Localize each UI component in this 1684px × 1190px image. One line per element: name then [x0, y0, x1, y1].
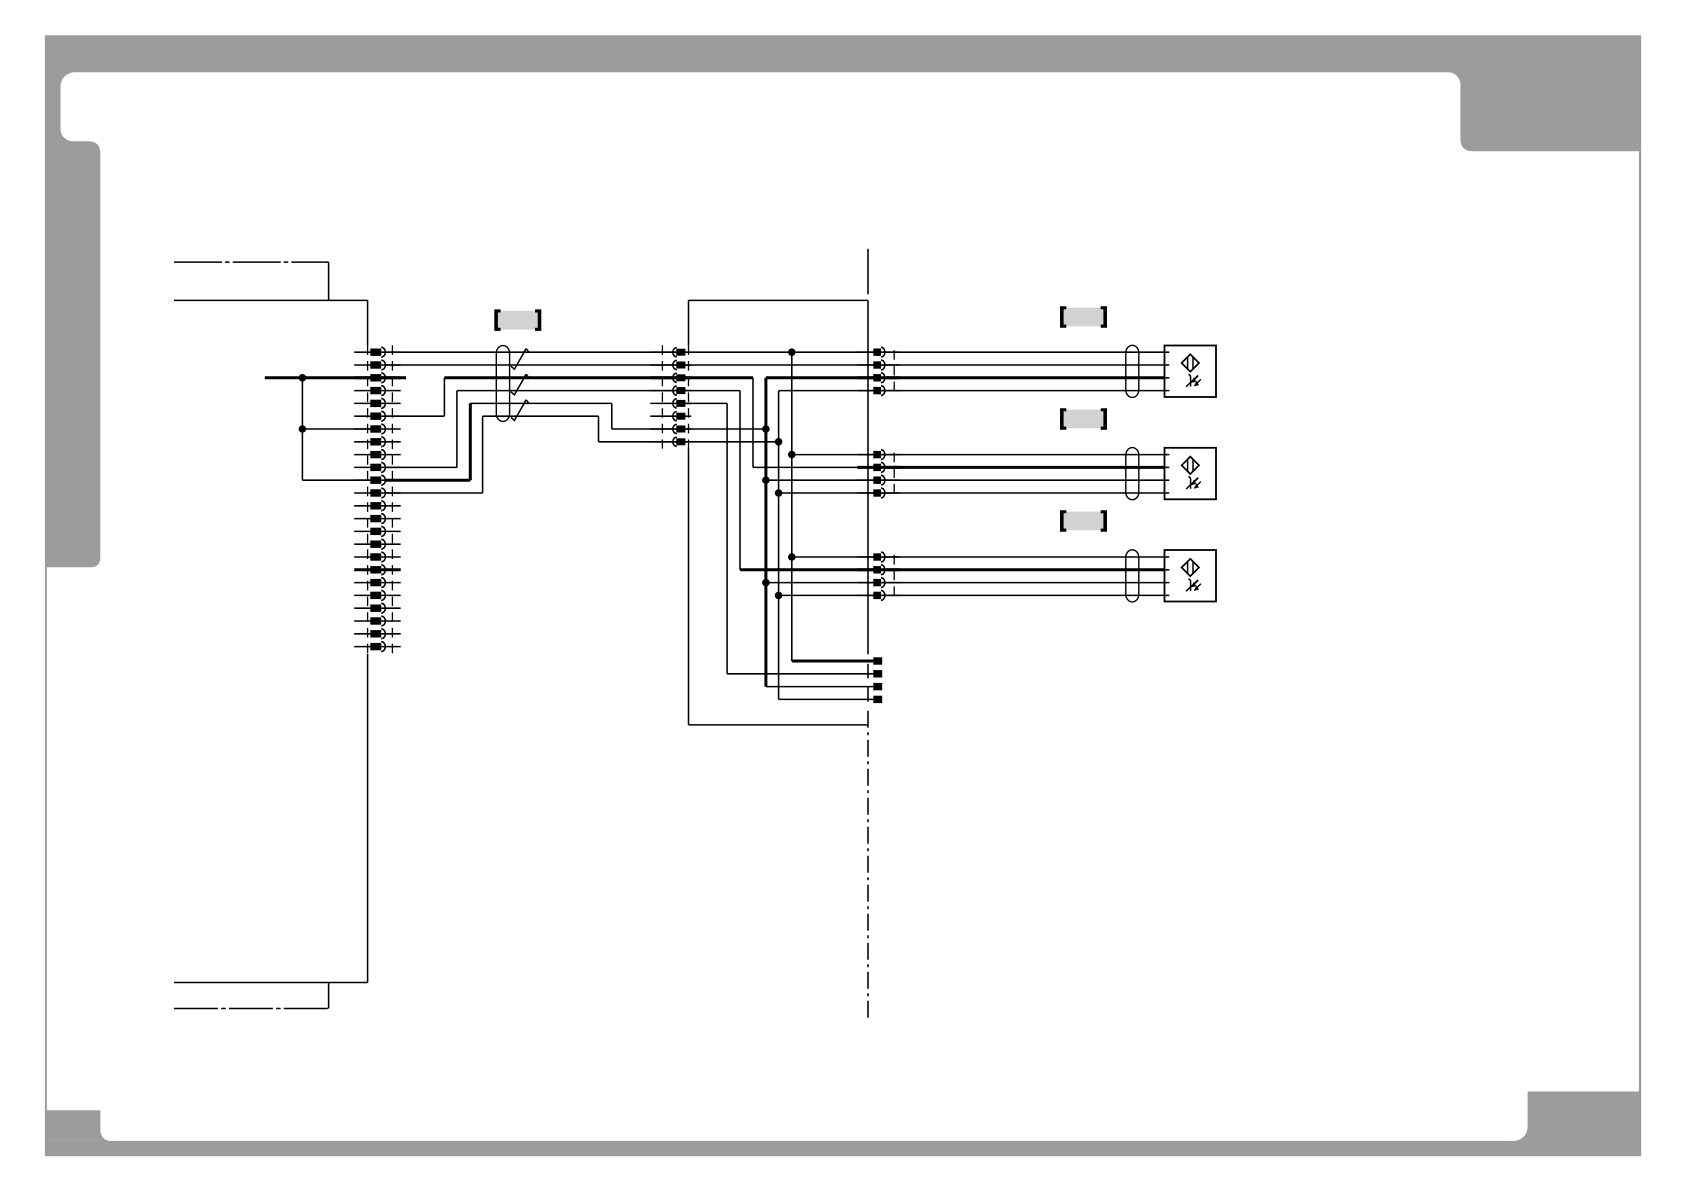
sensor 3 lead 2: [886, 568, 1164, 571]
wire gnd to CN3-3-3: [766, 582, 873, 584]
connector CN1 pin 6: [354, 411, 401, 421]
sensor 3 internal leads: [1165, 557, 1170, 595]
connector CN3 pin 2-3: [857, 475, 900, 485]
connector CN2 pin 4: [650, 386, 691, 395]
junction riser779/CN3-3-4: [775, 592, 783, 600]
connector CN1 pin 9: [354, 450, 401, 460]
connector CN1 pin 2: [354, 360, 401, 370]
connector CN1 pin 19: [354, 578, 401, 588]
connector CN1 pin 17: [354, 552, 401, 562]
main board outline (bottom-left, dash-dot boundary): [174, 983, 368, 1009]
twisted pair mark 1: [511, 349, 529, 370]
connector CN2 pin 6: [650, 412, 691, 421]
junction riser792/CN3-3-1: [788, 553, 796, 561]
photo sensor PS1: [1165, 346, 1217, 398]
connector CN3 pin 1-3: [857, 373, 900, 383]
label (part ref, sensor 2): [1060, 408, 1107, 430]
sensor 2 lead 2: [886, 466, 1164, 469]
sensor 3 lead 4: [881, 594, 1165, 596]
wire CN2-2 to CN3-1-2: [685, 364, 873, 366]
main board left edge (vertical): [367, 300, 369, 982]
wire CN2-5 down to T2: [685, 403, 873, 673]
wire CN2-4 down to CN3-3-2: [685, 391, 740, 570]
wire CN2-1 to CN3-1-1: [685, 351, 873, 353]
riser x=792 to T1: [792, 352, 874, 661]
connector CN1 pin 1: [354, 347, 401, 357]
junction gnd/CN3-3-3: [762, 579, 770, 587]
connector CN1 pin 20: [354, 591, 401, 601]
cable shield (sensor 3): [1126, 550, 1139, 602]
label (part ref, sensor 3): [1060, 510, 1107, 532]
sensor 3 lead 3: [881, 582, 1165, 584]
connector CN1 pin 12: [354, 488, 401, 498]
sensor 1 lead 2: [881, 364, 1165, 366]
wire CN1-6 up to thick net: [386, 378, 444, 416]
wire riser779 to CN3-2-4: [779, 492, 874, 494]
sensor 1 lead 3: [886, 376, 1164, 379]
connector CN1 pin 4: [354, 386, 401, 396]
connector CN3 pin 1-4: [857, 386, 900, 396]
connector CN1 pin 10: [354, 463, 401, 473]
connector CN2 body (dashed): [662, 345, 688, 448]
connector CN3 pin 1-2: [857, 360, 900, 370]
junction gnd/CN2-7: [762, 425, 770, 433]
cable shield (sensor 2): [1126, 448, 1139, 500]
label (part ref, CN1-CN2 harness): [494, 309, 541, 331]
wire CN1-1 to CN2-1: [386, 351, 676, 353]
connector CN1 pin 21: [354, 603, 401, 613]
bus branch vertical at x=302: [302, 378, 371, 480]
sensor 2 lead 3: [881, 479, 1165, 481]
junction bus/CN1-3: [299, 374, 307, 382]
connector CN1 pin 7: [354, 424, 401, 434]
connector CN3 pin 3-2: [857, 565, 900, 575]
connector CN3 pin 1-1: [857, 347, 900, 357]
thick ground riser x=766: [766, 378, 873, 687]
junction riser792/CN3-2-1: [788, 451, 796, 459]
connector CN1 pin 15: [354, 527, 401, 537]
connector CN2 pin 3: [650, 373, 691, 382]
connector CN1 pin 24: [354, 642, 401, 652]
wire CN2-7 to thick ground riser: [685, 428, 766, 430]
connector CN1 pin 11: [354, 475, 401, 485]
terminal pin T1: [873, 657, 882, 664]
connector CN3 pin 2-4: [857, 488, 900, 498]
connector CN3 pin 3-3: [857, 578, 900, 588]
connector CN3 pin 3-1: [857, 552, 900, 562]
junction riser779/CN3-2-4: [775, 489, 783, 497]
terminal pin T4: [873, 696, 882, 703]
junction riser779/CN2-8: [775, 438, 783, 446]
thick wire to CN3-3-2: [740, 568, 873, 571]
relay board outline: [689, 300, 869, 725]
connector CN1 pin 3: [354, 373, 401, 383]
photo sensor PS2: [1165, 448, 1217, 500]
wire CN1-2 to CN2-2: [386, 364, 676, 366]
wire riser779 to CN3-3-4: [779, 594, 874, 596]
wire riser792 to CN3-3-1: [792, 556, 874, 558]
sensor 2 internal leads: [1165, 455, 1170, 493]
thick wire to CN2-3: [444, 376, 676, 379]
wire riser792 to CN3-2-1: [792, 454, 874, 456]
thick wire CN2-3 down to CN3-2-2: [685, 378, 873, 468]
connector CN1 pin 8: [354, 437, 401, 447]
connector CN1 body (dashed): [368, 345, 393, 654]
terminal pin T2: [873, 670, 882, 677]
connector CN1 pin 14: [354, 514, 401, 524]
sensor 1 lead 4: [881, 390, 1165, 392]
connector CN1 pin 23: [354, 629, 401, 639]
connector CN3 pin 2-2: [857, 463, 900, 473]
connector CN1 pin 16: [354, 539, 401, 549]
connector CN2 pin 5: [650, 399, 691, 408]
main board outline (top-left, dash-dot boundary): [174, 262, 368, 300]
connector CN1 pin 18: [354, 565, 401, 575]
connector CN3 body (dashed): [893, 350, 895, 597]
wire CN1-11 up (thick riser): [386, 403, 470, 480]
wire CN1-12 up to CN2-8: [386, 416, 676, 493]
connector CN2 pin 1: [650, 348, 691, 357]
connector CN2 pin 8: [650, 437, 691, 446]
connector CN1 pin 5: [354, 399, 401, 409]
wire riser to CN2-7: [470, 403, 676, 429]
label (part ref, sensor 1): [1060, 306, 1107, 328]
wire CN1-10 up to CN2-4: [386, 391, 676, 468]
junction gnd/CN3-2-3: [762, 476, 770, 484]
cable shield (CN1-CN2 harness): [496, 346, 509, 422]
connector CN1 pin 13: [354, 501, 401, 511]
twisted pair mark 2: [511, 374, 529, 395]
sensor 2 lead 1: [881, 454, 1165, 456]
sensor 1 lead 1: [881, 351, 1165, 353]
cable shield (sensor 1): [1126, 345, 1139, 397]
sensor 3 lead 1: [881, 556, 1165, 558]
junction net1/riser: [788, 348, 796, 356]
sensor 1 internal leads: [1165, 352, 1170, 390]
wire gnd to CN3-2-3: [766, 479, 873, 481]
photo sensor PS3: [1165, 550, 1217, 602]
sensor 2 lead 4: [881, 492, 1165, 494]
page fold line (dash-dot, x=868): [867, 249, 869, 1022]
connector CN2 pin 2: [650, 360, 691, 369]
connector CN3 pin 3-4: [857, 591, 900, 601]
terminal pin T3: [873, 683, 882, 690]
thick supply bus (left of CN1): [265, 376, 406, 379]
connector CN1 pin 22: [354, 616, 401, 626]
wire CN2-8 riser x=779: [685, 391, 873, 700]
twisted pair mark 3: [511, 400, 529, 421]
connector CN3 pin 2-1: [857, 450, 900, 460]
connector CN2 pin 7: [650, 424, 691, 433]
junction bus/CN1-7: [299, 425, 307, 433]
